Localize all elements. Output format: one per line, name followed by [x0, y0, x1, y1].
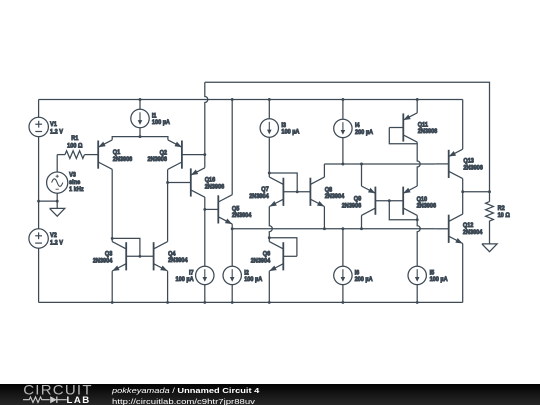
svg-text:200 µA: 200 µA [355, 129, 373, 136]
svg-text:1 kHz: 1 kHz [69, 186, 84, 193]
svg-text:2N3904: 2N3904 [463, 229, 483, 236]
svg-text:100 µA: 100 µA [176, 276, 194, 283]
svg-text:2N3904: 2N3904 [232, 212, 252, 219]
svg-text:2N3906: 2N3906 [113, 156, 133, 163]
svg-text:10 Ω: 10 Ω [498, 212, 510, 219]
svg-text:100 µA: 100 µA [281, 128, 299, 135]
svg-text:R2: R2 [498, 205, 505, 212]
svg-text:100 µA: 100 µA [152, 119, 170, 126]
svg-text:2N3906: 2N3906 [418, 128, 438, 135]
svg-text:2N3904: 2N3904 [93, 258, 113, 265]
svg-text:2N3906: 2N3906 [205, 184, 225, 191]
svg-text:V3: V3 [69, 172, 76, 179]
svg-text:R1: R1 [71, 135, 78, 142]
svg-text:2N3904: 2N3904 [325, 193, 345, 200]
svg-text:V2: V2 [50, 232, 57, 239]
svg-text:V1: V1 [50, 121, 57, 128]
svg-text:100 Ω: 100 Ω [67, 142, 82, 149]
svg-text:sine: sine [69, 179, 81, 186]
svg-text:2N3906: 2N3906 [463, 165, 483, 172]
svg-text:100 µA: 100 µA [430, 276, 448, 283]
svg-text:2N3906: 2N3906 [342, 202, 362, 209]
svg-text:100 µA: 100 µA [244, 276, 262, 283]
svg-text:200 µA: 200 µA [355, 276, 373, 283]
svg-text:2N3904: 2N3904 [168, 257, 188, 264]
svg-text:2N3906: 2N3906 [417, 203, 437, 210]
svg-text:2N3904: 2N3904 [251, 258, 271, 265]
svg-text:1.2 V: 1.2 V [50, 128, 64, 135]
svg-text:2N3904: 2N3904 [249, 193, 269, 200]
svg-text:2N3906: 2N3906 [148, 156, 168, 163]
svg-text:1.2 V: 1.2 V [50, 239, 64, 246]
